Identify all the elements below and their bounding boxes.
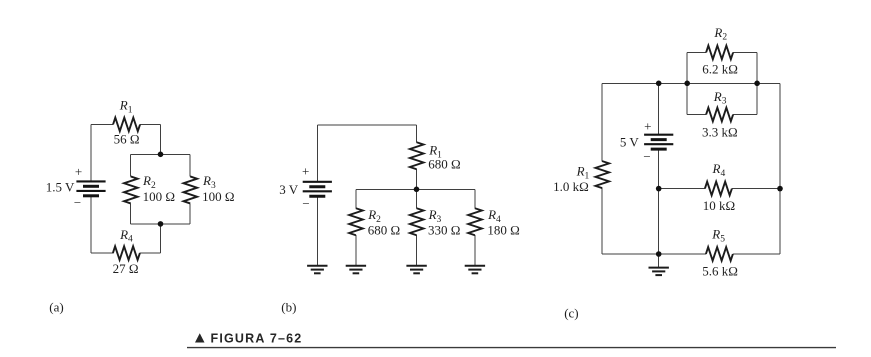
battery VS 3 V (303, 182, 332, 196)
wire c: parallel box left vertical (686, 53, 688, 115)
wire c: top rail (602, 82, 780, 84)
wire a: parallel box left branch upper (130, 154, 132, 176)
svg-text:10 kΩ: 10 kΩ (703, 198, 735, 213)
svg-text:R2: R2 (713, 25, 727, 43)
wire a: bottom rail left segment (91, 252, 113, 254)
resistor R1 (1.0 kohm) (596, 161, 610, 188)
wire c: left vertical lower (R1 to bottom rail) (601, 188, 603, 254)
wire c: bottom rail right segment (733, 253, 780, 255)
wire c: middle rail right segment (R4 to right vertical) (732, 188, 780, 190)
wire c: battery - down to bottom rail (658, 149, 660, 254)
svg-text:5.6 kΩ: 5.6 kΩ (702, 264, 738, 279)
svg-text:(a): (a) (49, 299, 63, 314)
caption triangle marker (195, 333, 205, 342)
wire b: R4 column lower to ground (474, 235, 476, 265)
wire a: vertical from bottom node to bottom rail (160, 224, 162, 253)
svg-text:R1: R1 (119, 98, 133, 116)
svg-text:56 Ω: 56 Ω (114, 132, 140, 147)
resistor R4 (10 kohm) (705, 182, 732, 196)
svg-text:+: + (644, 118, 651, 133)
wire a: top rail left segment (91, 124, 113, 126)
svg-text:5 V: 5 V (620, 135, 640, 150)
svg-text:100 Ω: 100 Ω (143, 189, 175, 204)
wire a: parallel box top rail (131, 153, 191, 155)
resistor R1 (56 ohm) (113, 118, 140, 132)
svg-text:FIGURA 7–62: FIGURA 7–62 (211, 332, 303, 346)
svg-text:−: − (74, 195, 81, 210)
svg-text:R5: R5 (711, 227, 725, 245)
node: right vertical on middle rail (777, 186, 783, 192)
ground: circuit c ground (649, 268, 669, 276)
wire c: left vertical upper (to R1) (601, 83, 603, 161)
wire c: parallel box right vertical (756, 53, 758, 115)
resistor R3 (100 ohm) (184, 176, 198, 203)
node: ground junction on bottom rail (656, 251, 662, 257)
wire a: right vertical from top rail to node (160, 125, 162, 155)
svg-text:R3: R3 (713, 89, 727, 107)
wire a: battery - down to bottom rail (90, 196, 92, 253)
wire c: ground stem (658, 254, 660, 267)
svg-text:+: + (75, 164, 82, 179)
svg-text:R4: R4 (712, 161, 726, 179)
wire b: R2 column upper (355, 189, 357, 208)
resistor R2 (100 ohm) (124, 176, 138, 203)
ground: R2 ground (346, 266, 366, 274)
wire b: middle rail (356, 188, 475, 190)
resistor R3 (3.3 kohm) (706, 108, 733, 122)
svg-text:3.3 kΩ: 3.3 kΩ (702, 125, 738, 140)
wire c: R2 branch right segment (733, 52, 757, 54)
wire b: left vertical to battery + (316, 125, 318, 182)
wire b: R3 column lower to ground (416, 235, 418, 265)
svg-text:100 Ω: 100 Ω (202, 189, 234, 204)
wire c: R3 branch left segment (687, 114, 706, 116)
wire a: parallel box right branch lower (189, 203, 191, 224)
wire b: R2 column lower to ground (355, 235, 357, 265)
svg-text:(b): (b) (281, 300, 296, 315)
battery VS 1.5 V (76, 181, 105, 195)
ground: R4 ground (465, 266, 485, 274)
resistor R5 (5.6 kohm) (706, 247, 733, 261)
svg-text:(c): (c) (564, 305, 578, 320)
ground: R3 ground (406, 266, 426, 274)
wire a: parallel box right branch upper (189, 154, 191, 176)
svg-text:1.0 kΩ: 1.0 kΩ (553, 179, 589, 194)
wire a: left vertical from top rail to battery + (90, 125, 92, 182)
svg-text:−: − (302, 196, 309, 211)
wire b: R1 column upper (416, 125, 418, 143)
wire a: parallel box bottom rail (131, 223, 191, 225)
svg-text:R4: R4 (119, 227, 133, 245)
resistor R2 (680 ohm) (349, 208, 363, 235)
wire c: R3 branch right segment (733, 114, 757, 116)
node: battery top on top rail (656, 81, 662, 87)
wire b: battery - down to ground (316, 196, 318, 265)
wire c: bottom rail left segment (602, 253, 706, 255)
resistor R3 (330 ohm) (410, 208, 424, 235)
node: junction of R1 bottom with middle rail (414, 187, 420, 193)
node: parallel box left on top rail (684, 81, 690, 87)
ground: battery ground (307, 266, 327, 274)
node: bottom junction of parallel R2 R3 (158, 221, 164, 227)
svg-text:+: + (302, 163, 309, 178)
svg-text:180 Ω: 180 Ω (487, 223, 519, 238)
wire a: parallel box left branch lower (130, 203, 132, 224)
svg-text:6.2 kΩ: 6.2 kΩ (702, 62, 738, 77)
wire c: battery column top rail to battery + (658, 83, 660, 134)
wire a: top rail right segment (140, 124, 161, 126)
svg-text:680 Ω: 680 Ω (428, 157, 460, 172)
wire b: R1 column lower to node (416, 169, 418, 189)
svg-text:−: − (643, 149, 650, 164)
svg-text:27 Ω: 27 Ω (113, 261, 139, 276)
svg-text:680 Ω: 680 Ω (368, 223, 400, 238)
battery VS 5 V (644, 135, 673, 149)
svg-text:330 Ω: 330 Ω (428, 223, 460, 238)
wire c: R2 branch left segment (687, 52, 706, 54)
wire b: R3 column upper (416, 189, 418, 208)
wire b: top rail (317, 124, 416, 126)
resistor R4 (27 ohm) (113, 246, 140, 260)
svg-text:1.5 V: 1.5 V (46, 180, 75, 195)
resistor R4 (180 ohm) (468, 208, 482, 235)
node: parallel box right on top rail (754, 81, 760, 87)
node: top junction of parallel R2 R3 (158, 152, 164, 158)
caption rule (187, 347, 836, 349)
resistor R2 (6.2 kohm) (706, 46, 733, 60)
node: battery bottom on middle rail (656, 186, 662, 192)
svg-text:3 V: 3 V (279, 182, 299, 197)
wire c: right vertical (779, 83, 781, 254)
wire b: R4 column upper (474, 189, 476, 208)
resistor R1 (680 ohm) (410, 142, 424, 169)
wire c: middle rail left segment (node to R4) (659, 188, 705, 190)
wire a: bottom rail right segment (140, 252, 161, 254)
